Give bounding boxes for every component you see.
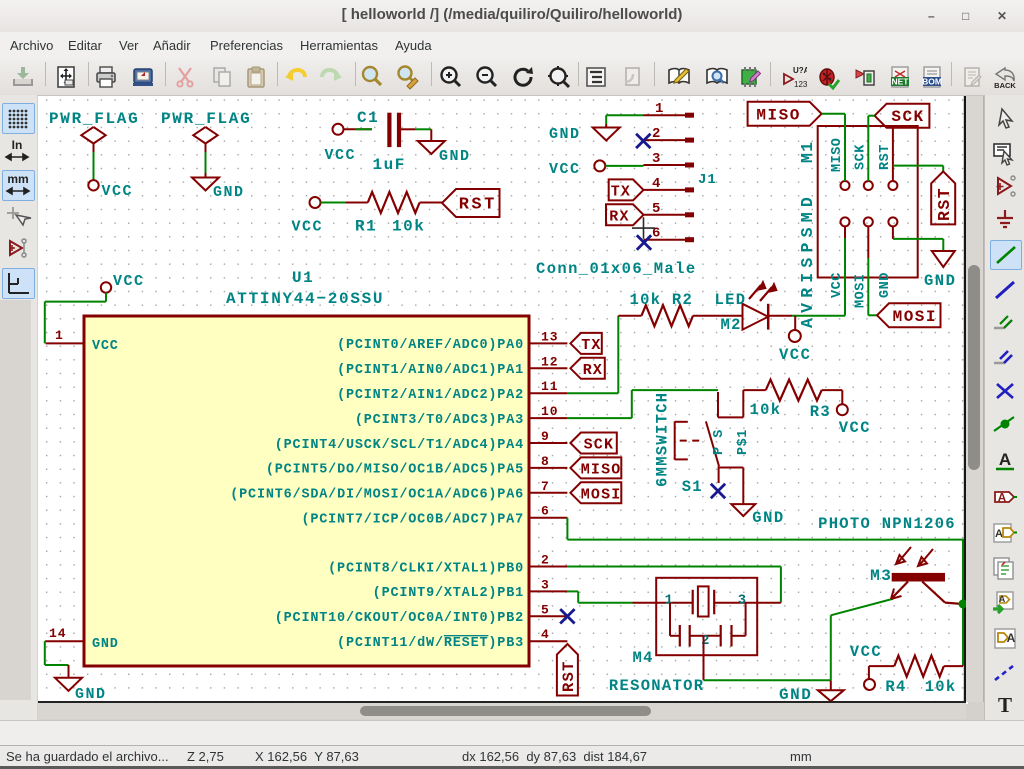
svg-text:SCK: SCK [891, 108, 924, 126]
svg-text:MOSI: MOSI [581, 486, 622, 503]
svg-text:VCC: VCC [102, 183, 134, 200]
power port GND (right of M1) [924, 251, 956, 290]
U1 pin 13 ((PCINT0/AREF/ADC0)PA0) [337, 329, 567, 353]
M1 RST pin line [892, 128, 894, 181]
svg-text:RST: RST [935, 187, 954, 221]
svg-text:ATTINY44−20SSU: ATTINY44−20SSU [226, 290, 384, 308]
no-connect X (U1 PB2 pin 5) [560, 609, 574, 623]
wire U1 pin11 PA2 to LED row [567, 316, 618, 394]
U1 pin 3 ((PCINT9/XTAL2)PB1) [373, 577, 568, 601]
U1 pin 5 ((PCINT10/CKOUT/OC0A/INT0)PB2) [275, 602, 568, 626]
svg-text:SCK: SCK [584, 437, 615, 454]
wire VCC to J1 pin3 [605, 165, 643, 167]
wire U1 pin3 PB1 to resonator pin1 [567, 591, 632, 602]
wire U1 pin6 PA7 to M3 row [567, 518, 964, 540]
svg-text:MISO: MISO [830, 138, 845, 172]
svg-text:13: 13 [541, 329, 559, 344]
svg-text:(PCINT6/SDA/DI/MOSI/OC1A/ADC6): (PCINT6/SDA/DI/MOSI/OC1A/ADC6)PA6 [230, 488, 524, 503]
global label TX (J1 pin4) [609, 179, 644, 200]
component U1 ATTINY44-20SSU body [84, 269, 529, 666]
U1 pin 1 VCC (left) [46, 328, 119, 354]
svg-text:(PCINT3/T0/ADC3)PA3: (PCINT3/T0/ADC3)PA3 [355, 413, 524, 428]
svg-text:MISO: MISO [581, 461, 622, 478]
wire U1 pin14 to GND [45, 641, 69, 665]
svg-text:R3: R3 [810, 403, 831, 421]
svg-text:2: 2 [541, 553, 550, 568]
svg-text:GND: GND [924, 272, 956, 290]
wire VCC to R1 [321, 202, 346, 204]
svg-text:VCC: VCC [850, 643, 882, 661]
svg-text:VCC: VCC [549, 161, 581, 178]
svg-text:BACK: BACK [994, 81, 1016, 90]
switch S1 6MMSWITCH [654, 390, 752, 504]
svg-text:A: A [995, 528, 1003, 540]
global label SCK (top) [875, 104, 930, 128]
connector J1 Conn_01x06_Male [536, 101, 717, 278]
global label RX (J1 pin5) [606, 204, 644, 225]
power port GND (below S1) [731, 504, 784, 527]
svg-text:RX: RX [609, 208, 629, 225]
svg-text:LED: LED [715, 291, 747, 309]
global label RST vertical (right) [931, 171, 955, 224]
svg-text:SCK: SCK [853, 144, 868, 170]
U1 pin 12 ((PCINT1/AIN0/ADC1)PA1) [337, 354, 567, 378]
M1 pin GND pad [878, 217, 898, 298]
svg-text:GND: GND [75, 686, 107, 702]
power flag PWR_FLAG #2 [161, 110, 251, 152]
svg-text:9: 9 [541, 429, 550, 444]
power port GND (below M3) [779, 680, 844, 704]
svg-text:GND: GND [779, 686, 812, 702]
svg-text:In: In [12, 138, 23, 152]
U1 pin 9 ((PCINT4/USCK/SCL/T1/ADC4)PA4) [275, 429, 568, 453]
wire PWR_FLAG1 to VCC [93, 152, 95, 180]
wire VCC to U1 pin1 [45, 293, 106, 344]
power port GND (below U1 pin14) [55, 665, 107, 703]
svg-text:RX: RX [583, 362, 603, 379]
power port VCC (R1 left) [292, 197, 324, 236]
svg-text:NET: NET [892, 77, 910, 87]
svg-text:PWR_FLAG: PWR_FLAG [161, 110, 251, 128]
M1 pin SCK pad [853, 144, 873, 190]
global label RST vertical (U1 PB3 pin 4) [557, 644, 578, 696]
no-connect X (J1 pin2) [636, 134, 650, 148]
svg-text:10: 10 [541, 404, 559, 419]
resistor R3 10k [743, 380, 842, 421]
global label SCK (U1 PA4) [570, 433, 616, 454]
svg-text:7: 7 [541, 479, 550, 494]
svg-text:GND: GND [439, 148, 471, 165]
wire J1 pin1 to GND [606, 115, 643, 124]
wire PWR_FLAG2 to GND [205, 152, 207, 173]
svg-text:VCC: VCC [839, 419, 871, 437]
svg-text:11: 11 [541, 379, 559, 394]
U1 pin 4 ((PCINT11/dW/RESET)PB3) [337, 627, 567, 651]
U1 pin 11 ((PCINT2/AIN1/ADC2)PA2) [337, 379, 567, 403]
M4 pin2 line down [703, 636, 705, 681]
M1 pin RST pad [878, 144, 898, 190]
phototransistor M3 [818, 515, 961, 604]
svg-text:VCC: VCC [92, 339, 119, 354]
svg-text:A: A [998, 491, 1007, 505]
svg-text:AVRISPSMD: AVRISPSMD [798, 192, 817, 328]
U1 pin 7 ((PCINT6/SDA/DI/MOSI/OC1A/ADC6)PA6) [230, 479, 567, 503]
svg-text:P$1: P$1 [736, 429, 751, 455]
svg-text:(PCINT9/XTAL2)PB1: (PCINT9/XTAL2)PB1 [373, 586, 524, 601]
no-connect X (J1 pin6) [637, 235, 651, 249]
U1 pin 10 ((PCINT3/T0/ADC3)PA3) [355, 404, 568, 428]
svg-text:VCC: VCC [292, 219, 324, 236]
svg-text:VCC: VCC [113, 273, 145, 290]
svg-text:6MMSWITCH: 6MMSWITCH [654, 392, 672, 487]
M1 VCC pin line + wire down [844, 226, 846, 315]
svg-text:R1: R1 [355, 218, 377, 236]
wire M4 pin2 to GND node [704, 679, 831, 681]
global label MOSI (U1 PA6) [570, 482, 621, 503]
power port VCC (J1 pin3) [549, 160, 605, 178]
wire U1 pin10 PA3 to switch S1 [567, 390, 718, 418]
svg-text:M3: M3 [870, 567, 892, 585]
global label MISO (top) [748, 102, 822, 126]
svg-text:J1: J1 [698, 172, 717, 188]
svg-text:123: 123 [794, 80, 807, 89]
svg-text:GND: GND [752, 509, 784, 527]
svg-text:GND: GND [878, 272, 893, 298]
power port VCC (C1 left) [325, 124, 357, 164]
svg-text:(PCINT2/AIN1/ADC2)PA2: (PCINT2/AIN1/ADC2)PA2 [337, 388, 524, 403]
svg-text:4: 4 [541, 627, 550, 642]
svg-text:6: 6 [541, 504, 550, 519]
global label RX (U1 PA1) [570, 358, 604, 379]
wire C1 to GND [416, 129, 432, 141]
svg-text:A: A [999, 450, 1011, 469]
svg-text:14: 14 [49, 626, 67, 641]
junction (right edge) [959, 599, 968, 608]
svg-text:U?A: U?A [793, 66, 807, 75]
svg-text:4: 4 [652, 176, 661, 192]
M1 pin VCC pad [830, 217, 850, 298]
M4 internal capacitors [670, 603, 746, 649]
svg-text:MISO: MISO [756, 106, 800, 124]
svg-text:3: 3 [541, 577, 550, 592]
U1 pin 2 ((PCINT8/CLKI/XTAL1)PB0) [328, 553, 567, 577]
svg-text:10k R2: 10k R2 [630, 291, 694, 309]
wire right edge vertical [962, 540, 964, 667]
wire SCK label to M1 [868, 116, 874, 181]
svg-text:(PCINT7/ICP/OC0B/ADC7)PA7: (PCINT7/ICP/OC0B/ADC7)PA7 [301, 513, 524, 528]
svg-text:M2: M2 [721, 316, 742, 334]
svg-text:PHOTO NPN1206: PHOTO NPN1206 [818, 515, 956, 533]
global label MOSI (right mid) [877, 303, 941, 327]
global label RST (right of R1) [442, 189, 500, 217]
power port GND (under PWR_FLAG2) [192, 173, 245, 201]
connector M1 AVRISPSMD body [798, 126, 918, 328]
wire MISO label to M1 [822, 114, 845, 181]
svg-text:BOM: BOM [922, 77, 942, 87]
power port VCC (under PWR_FLAG1) [88, 180, 133, 200]
wire LED to M1 VCC column [792, 315, 845, 317]
svg-text:8: 8 [541, 454, 550, 469]
svg-text:S1: S1 [682, 478, 703, 496]
svg-text:P S: P S [712, 429, 727, 455]
svg-text:TX: TX [611, 183, 631, 200]
resonator M4 body [609, 578, 757, 695]
resistor R1 10k [345, 192, 442, 236]
svg-text:1: 1 [55, 328, 64, 343]
svg-text:VCC: VCC [779, 346, 811, 364]
svg-text:VCC: VCC [830, 272, 845, 298]
svg-text:12: 12 [541, 354, 559, 369]
M1 MOSI pin line + wire to MOSI label [868, 226, 877, 315]
svg-text:1uF: 1uF [373, 156, 406, 174]
power port GND (C1 right) [418, 141, 471, 165]
U1 pin 14 GND (left) [46, 626, 119, 652]
svg-text:U1: U1 [292, 269, 314, 287]
power port VCC (left of R4) [850, 643, 882, 690]
svg-text:(PCINT10/CKOUT/OC0A/INT0)PB2: (PCINT10/CKOUT/OC0A/INT0)PB2 [275, 611, 524, 626]
svg-text:5: 5 [541, 602, 550, 617]
power port VCC (above U1) [101, 273, 145, 293]
svg-text:M4: M4 [633, 649, 654, 667]
svg-text:mm: mm [7, 172, 28, 186]
svg-text:R4: R4 [885, 678, 906, 696]
svg-text:GND: GND [549, 126, 581, 143]
svg-text:10k: 10k [750, 401, 782, 419]
svg-text:(PCINT5/DO/MISO/OC1B/ADC5)PA5: (PCINT5/DO/MISO/OC1B/ADC5)PA5 [266, 463, 524, 478]
resistor R4 10k [869, 656, 963, 696]
wire GND node up to M3 emitter [831, 599, 893, 681]
svg-text:T: T [998, 693, 1012, 717]
svg-text:RST: RST [560, 660, 578, 692]
svg-text:GND: GND [213, 184, 245, 201]
M1 pin MISO pad [830, 138, 850, 190]
wire VCC to C1 [355, 128, 372, 130]
svg-text:10k: 10k [392, 218, 425, 236]
svg-text:(PCINT4/USCK/SCL/T1/ADC4)PA4: (PCINT4/USCK/SCL/T1/ADC4)PA4 [275, 438, 524, 453]
svg-text:RESONATOR: RESONATOR [609, 677, 704, 695]
svg-text:(PCINT1/AIN0/ADC1)PA1: (PCINT1/AIN0/ADC1)PA1 [337, 363, 524, 378]
svg-text:C1: C1 [357, 109, 379, 127]
svg-text:TX: TX [581, 337, 601, 354]
wire U1 pin2 PB0 to resonator pin3 [567, 567, 781, 603]
wire M1 RST to RST label [893, 166, 943, 172]
svg-text:3: 3 [652, 151, 661, 167]
capacitor C1 1uF [344, 109, 416, 174]
M4 crystal element [633, 586, 781, 616]
M1 pin MOSI pad [853, 217, 873, 308]
svg-text:MOSI: MOSI [893, 308, 937, 326]
svg-text:5: 5 [652, 201, 661, 217]
svg-text:(PCINT11/dW/RESET)PB3: (PCINT11/dW/RESET)PB3 [337, 636, 524, 651]
power port VCC (right of R3) [837, 404, 871, 437]
global label TX (U1 PA0) [570, 333, 601, 354]
svg-text:(PCINT0/AREF/ADC0)PA0: (PCINT0/AREF/ADC0)PA0 [337, 338, 524, 353]
svg-text:A: A [1007, 631, 1016, 645]
power port VCC (below LED wire) [779, 316, 811, 364]
svg-text:A: A [999, 594, 1006, 604]
svg-text:PWR_FLAG: PWR_FLAG [49, 110, 139, 128]
svg-text:(PCINT8/CLKI/XTAL1)PB0: (PCINT8/CLKI/XTAL1)PB0 [328, 561, 524, 576]
svg-text:RST: RST [459, 196, 497, 215]
svg-text:10k: 10k [925, 678, 957, 696]
U1 pin 8 ((PCINT5/DO/MISO/OC1B/ADC5)PA5) [266, 454, 568, 478]
svg-text:2: 2 [652, 126, 661, 142]
no-connect X (S1) [711, 484, 725, 498]
M1 GND pin line + wire to GND [893, 226, 943, 251]
svg-text:Conn_01x06_Male: Conn_01x06_Male [536, 260, 697, 278]
U1 pin 6 ((PCINT7/ICP/OC0B/ADC7)PA7) [301, 504, 567, 528]
LED M2 [693, 281, 792, 334]
svg-text:M1: M1 [798, 141, 817, 163]
svg-text:MOSI: MOSI [853, 274, 868, 308]
svg-text:VCC: VCC [325, 147, 357, 164]
svg-text:1: 1 [655, 101, 664, 117]
power port GND (J1 pin1) [549, 124, 620, 143]
editor crosshair cursor [632, 217, 655, 239]
svg-text:GND: GND [92, 637, 119, 652]
global label MISO (U1 PA5) [570, 457, 621, 478]
resistor R2 10k [618, 291, 693, 326]
svg-text:RST: RST [878, 144, 893, 170]
power flag PWR_FLAG #1 [49, 110, 139, 152]
